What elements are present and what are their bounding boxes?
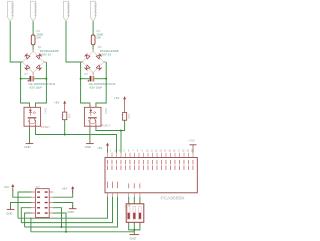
svg-text:17: 17 <box>177 150 180 152</box>
wire OK1 collector to IC pin 3 <box>36 126 117 153</box>
svg-text:R3: R3 <box>61 114 65 118</box>
wire OK2 collector to IC pin 4 <box>96 126 121 153</box>
svg-text:20: 20 <box>191 150 194 152</box>
wire GND flag to IC pin 20 <box>192 149 194 152</box>
bridge B2 diode top-left <box>85 54 90 59</box>
svg-text:JP1: JP1 <box>35 185 40 189</box>
svg-text:14: 14 <box>164 150 167 152</box>
svg-text:S1: S1 <box>124 205 126 208</box>
svg-text:2W: 2W <box>96 36 101 40</box>
IC U1 PCA9685 <box>105 153 197 197</box>
svg-text:230VAC-1: 230VAC-1 <box>11 3 15 17</box>
svg-text:PC817: PC817 <box>41 125 51 129</box>
wire OK1 emitter to ground <box>29 126 31 143</box>
wire P3 to bridge B2 left <box>66 21 83 62</box>
wire JP1 row5 right to bus4 <box>53 213 66 232</box>
node C1 left junction <box>20 78 22 80</box>
wire IC pin to S1 switch 3 <box>139 197 141 204</box>
node C2 right junction <box>105 78 107 80</box>
ground OK2 <box>86 143 94 145</box>
bridge rectifier B1 body <box>22 51 43 72</box>
connector JP1 pin numbers <box>29 192 55 215</box>
svg-text:OK2: OK2 <box>104 108 108 114</box>
svg-text:12: 12 <box>155 150 158 152</box>
ground right of JP1 <box>69 206 77 209</box>
ground left of JP1 <box>7 207 15 210</box>
resistor R2 <box>91 35 95 45</box>
wire bus3 to IC bottom pin <box>25 197 118 227</box>
capacitor C2 polarity <box>87 80 89 82</box>
wire +5V supply to IC pin 1 <box>107 149 109 153</box>
svg-text:GND: GND <box>85 145 91 149</box>
wire S1 bottoms to ground <box>129 222 140 234</box>
svg-text:+5V: +5V <box>4 185 9 189</box>
wire P1 to bridge B1 left <box>10 21 22 62</box>
svg-text:+5V: +5V <box>62 187 67 191</box>
power +5V for R3 <box>63 101 66 113</box>
bridge B2 diode bottom-left <box>85 65 90 70</box>
ground flag IC pin20 <box>190 145 197 150</box>
wire JP1 row4 left to bus2 <box>21 208 32 223</box>
dip switch S1 <box>126 204 144 223</box>
svg-text:+5V: +5V <box>54 100 59 104</box>
svg-text:230VAC-2: 230VAC-2 <box>66 3 70 17</box>
svg-text:10: 10 <box>146 150 149 152</box>
wire C1 row right <box>34 78 46 80</box>
svg-text:230VAC-2: 230VAC-2 <box>93 3 97 17</box>
wire B1 right vertical to opto OK1 cathode <box>36 62 47 107</box>
connector X2 flag <box>31 1 36 21</box>
svg-text:11: 11 <box>150 150 153 152</box>
power +5V right of JP1 <box>71 186 74 193</box>
optocoupler OK2 <box>84 104 101 130</box>
bridge rectifier B2 body <box>82 51 104 72</box>
svg-text:PCA9685N: PCA9685N <box>161 195 186 201</box>
bridge B2 diode top-right <box>96 54 101 59</box>
wire JP1 pin3 left to GND <box>11 203 32 210</box>
svg-text:C1: C1 <box>24 72 28 76</box>
node C1 right junction <box>45 78 47 80</box>
wire JP1 pin2 right to +5V <box>53 190 73 198</box>
wire JP1 row3 left to bus1 <box>18 192 32 218</box>
node C2 left junction <box>80 78 82 80</box>
svg-text:10: 10 <box>54 213 56 215</box>
svg-text:8: 8 <box>54 208 55 210</box>
svg-text:18: 18 <box>182 150 185 152</box>
wire C2 row right <box>95 78 107 80</box>
svg-text:8: 8 <box>137 150 139 152</box>
svg-text:19: 19 <box>186 150 189 152</box>
wire C2 row left <box>81 78 90 80</box>
node bus3 junction <box>61 226 63 228</box>
junction dots <box>20 78 136 233</box>
IC U1 top pin numbers <box>110 150 194 152</box>
svg-text:6: 6 <box>54 202 55 204</box>
wire P2 to R1 <box>32 21 34 35</box>
svg-text:GND: GND <box>24 145 30 149</box>
wire bus1 to IC bottom pin <box>18 197 108 219</box>
wire OK2 emitter to ground <box>89 126 91 143</box>
wire JP1 row5 left to bus3 <box>25 213 32 227</box>
svg-text:GND: GND <box>130 237 136 241</box>
svg-text:R4: R4 <box>121 114 125 118</box>
svg-text:63V 10uF: 63V 10uF <box>90 86 103 90</box>
node R4 output junction <box>120 130 122 132</box>
svg-text:6: 6 <box>128 150 130 152</box>
bridge B2 diode bottom-right <box>96 65 101 70</box>
svg-text:2W: 2W <box>36 36 41 40</box>
wire JP1 row4 right to bus3 <box>53 208 62 227</box>
resistor R4 <box>123 113 127 121</box>
IC U1 bottom pin stubs <box>108 193 140 197</box>
svg-text:1: 1 <box>29 192 30 194</box>
IC U1 top pin stubs <box>108 153 194 158</box>
svg-text:400V 1A: 400V 1A <box>100 53 112 57</box>
bridge B1 diode bottom-left <box>25 65 30 70</box>
svg-text:+5V: +5V <box>114 96 119 100</box>
capacitor C1 <box>30 76 35 82</box>
node S1 ground junction <box>133 229 135 231</box>
svg-text:10K: 10K <box>67 114 71 119</box>
wire R1 to B1 top <box>32 45 34 50</box>
svg-text:4: 4 <box>54 197 55 199</box>
wire IC pin to S1 switch 2 <box>133 197 135 204</box>
IC U1 bottom pin names <box>107 182 140 189</box>
wire C1 row left <box>21 78 30 80</box>
svg-text:GND: GND <box>6 211 12 215</box>
svg-text:15: 15 <box>168 150 171 152</box>
wire B2 left vertical to opto OK2 anode <box>81 62 90 107</box>
wire R3 to node <box>64 120 66 135</box>
svg-text:2: 2 <box>54 192 55 194</box>
svg-text:7: 7 <box>29 208 30 210</box>
wire JP1 corner to bus4 <box>30 218 32 232</box>
svg-text:PC817: PC817 <box>101 124 111 128</box>
wire bus4 to DIP ground <box>31 231 134 233</box>
resistor R3 <box>63 112 67 120</box>
svg-text:400V 1A: 400V 1A <box>40 53 52 57</box>
IC U1 top pin names <box>107 160 193 170</box>
svg-text:63V 10uF: 63V 10uF <box>30 86 43 90</box>
bridge B1 diode bottom-right <box>36 65 41 70</box>
svg-text:9: 9 <box>29 213 30 215</box>
svg-text:ON: ON <box>127 205 130 207</box>
svg-text:13: 13 <box>159 150 162 152</box>
bridge B1 diode top-right <box>36 54 41 59</box>
svg-text:2: 2 <box>110 150 112 152</box>
node bus4 junction <box>65 231 67 233</box>
resistor R1 <box>31 35 35 45</box>
svg-text:7: 7 <box>132 150 134 152</box>
connector JP1 <box>32 189 53 218</box>
svg-text:OK1: OK1 <box>44 108 48 114</box>
connector X1 flag <box>8 1 13 21</box>
power +5V left of JP1 <box>11 184 14 191</box>
connector X4 flag <box>91 1 96 21</box>
connector X3 flag <box>63 1 68 21</box>
node R3 output junction <box>64 134 66 136</box>
svg-text:3: 3 <box>29 197 30 199</box>
power +5V for IC pin1 <box>106 143 109 149</box>
wire JP1 pin1 left to +5V <box>13 189 32 198</box>
svg-text:230VAC-1: 230VAC-1 <box>33 3 37 17</box>
wire JP1 pin4 right to GND <box>53 203 73 209</box>
svg-text:9: 9 <box>141 150 143 152</box>
wire R4 to node <box>121 120 125 130</box>
bridge B2 pin stubs <box>81 49 107 75</box>
wire R2 to B2 top <box>92 45 94 50</box>
svg-text:16: 16 <box>173 150 176 152</box>
optocoupler OK1 <box>24 104 41 130</box>
capacitor C1 polarity <box>27 80 29 82</box>
bridge B1 diode top-left <box>25 54 30 59</box>
ground S1 <box>130 234 140 236</box>
wire IC pin to S1 switch 1 <box>128 197 130 204</box>
svg-text:GND: GND <box>189 138 195 142</box>
svg-text:GND: GND <box>67 210 73 214</box>
ground OK1 <box>26 143 34 145</box>
capacitor C2 <box>90 76 95 82</box>
wire P4 to R2 <box>92 21 94 35</box>
svg-text:10K: 10K <box>127 114 131 119</box>
bridge B1 pin stubs <box>21 49 47 75</box>
svg-text:+5V: +5V <box>97 146 102 150</box>
svg-text:5: 5 <box>29 202 30 204</box>
svg-text:C2: C2 <box>84 72 88 76</box>
wire bus2 to IC bottom pin <box>21 197 112 223</box>
power +5V for R4 <box>123 96 126 112</box>
wire B2 right vertical to opto OK2 cathode <box>96 62 106 107</box>
svg-text:5: 5 <box>123 150 125 152</box>
wire B1 left vertical to opto OK1 anode <box>21 62 30 107</box>
